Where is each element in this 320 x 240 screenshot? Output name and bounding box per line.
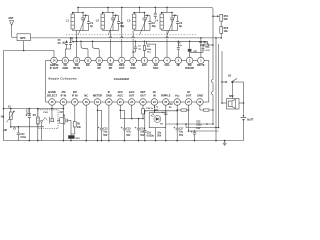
svg-text:BPF: BPF (20, 36, 26, 40)
IC pin 18 NC (bottom) (83, 99, 90, 106)
junction node BPF/left bus (23, 50, 25, 52)
rail y110.8 (145, 110, 178, 112)
IC pin 1 MUTE (top) (198, 57, 205, 64)
svg-text:OUT: OUT (140, 94, 146, 98)
earphone jack PH1 dashed box (38, 110, 58, 129)
wire pin 1 MUTE up (200, 38, 202, 57)
svg-text:C12: C12 (103, 128, 108, 130)
svg-text:10V: 10V (196, 128, 201, 130)
IC pin 20 IF GND (bottom) (106, 99, 113, 106)
svg-text:IF IN: IF IN (61, 94, 67, 98)
svg-text:C18 1u: C18 1u (146, 108, 154, 110)
band pass filter BPF (17, 34, 31, 41)
capacitor C14 10u 50V (138, 119, 140, 129)
svg-text:0.033u: 0.033u (147, 136, 155, 138)
svg-text:NC: NC (86, 63, 90, 67)
IC pin 12 FM RF IN (top) (73, 57, 80, 64)
svg-text:C17: C17 (179, 128, 184, 130)
right bus wire c (221, 51, 223, 103)
wire top rail corner down (211, 7, 213, 9)
IC U1 CXA1691M body (46, 61, 209, 103)
svg-text:220u: 220u (196, 125, 202, 127)
wire pin 19 METER down (97, 105, 99, 141)
IC pin 15 BAND SELECT (bottom) (49, 99, 56, 106)
wire pin 3 NF up (177, 41, 179, 47)
svg-text:RF IN: RF IN (73, 66, 80, 70)
junction arrow line (212, 15, 214, 17)
second rail y41.3 (72, 40, 208, 42)
svg-text:C10: C10 (20, 134, 25, 136)
svg-text:DET: DET (140, 90, 146, 94)
tuned circuit L4/C4 AM OSC tank (160, 14, 163, 29)
svg-text:IN: IN (153, 94, 156, 98)
top supply rail (78, 6, 211, 8)
svg-text:C13: C13 (126, 128, 131, 130)
tuned circuit L1/C1 FM RF tank (71, 14, 74, 29)
svg-text:C11: C11 (26, 111, 31, 113)
wire caps to pin 13 (65, 48, 70, 50)
wiper arrow into RV1 (213, 15, 217, 17)
earphone plug P1 (57, 120, 60, 122)
IC pin 7 FM OSC (top) (130, 57, 137, 64)
svg-text:BAND: BAND (48, 90, 56, 94)
svg-text:AFC: AFC (118, 90, 123, 94)
svg-text:AFC: AFC (142, 63, 147, 67)
svg-text:VOL: VOL (164, 63, 170, 67)
wire pin 22 down (131, 105, 133, 119)
IC pin 23 DET OUT (bottom) (140, 99, 147, 106)
svg-text:ANT: ANT (8, 16, 14, 20)
svg-text:OSC: OSC (130, 66, 136, 70)
svg-text:2p: 2p (90, 25, 93, 28)
ferrite bead DF2 (70, 134, 72, 141)
svg-text:50V: 50V (154, 109, 158, 111)
svg-text:NF: NF (177, 63, 181, 67)
capacitor C13 4.7u 50V (119, 105, 121, 111)
svg-text:34p: 34p (120, 25, 125, 28)
svg-text:AGC: AGC (117, 94, 123, 98)
svg-text:Vcc: Vcc (175, 94, 180, 98)
svg-text:30p: 30p (152, 25, 157, 28)
rail y127.5 (186, 127, 219, 129)
wire speaker right (239, 102, 244, 104)
svg-text:0.01u: 0.01u (20, 137, 26, 139)
wire RV2 to rail (220, 33, 222, 38)
capacitor C17 10u 50V (176, 127, 179, 129)
wire tank3 to pin 7 FM OSC (132, 31, 134, 37)
svg-text:OUT: OUT (186, 94, 192, 98)
rail mid-left lower (11, 126, 44, 128)
rail y118.5 (120, 118, 143, 120)
IC pin 9 FM RF (top) (107, 57, 114, 64)
wire pin 25 RIPPLE down (165, 105, 167, 113)
potentiometer RV1 50k (220, 14, 223, 21)
wire pin15 into jack (51, 105, 53, 119)
IC pin 16 AM IF IN (bottom) (60, 99, 67, 106)
svg-text:RF: RF (109, 66, 113, 70)
rail mid-left upper (4, 108, 64, 110)
LED cathode wire (155, 128, 157, 141)
svg-text:CXA1691M: CXA1691M (114, 77, 130, 81)
capacitor C19 1u (164, 112, 167, 114)
wire to pin 8 REG OUT (121, 7, 123, 36)
svg-text:IF: IF (108, 90, 111, 94)
jack contacts (41, 120, 43, 122)
wire pin 27 AF OUT down (188, 105, 190, 131)
IC pin 14 AM/FM IF OUT (top) (51, 57, 58, 64)
padder capacitor between tank3 and tank4 (154, 7, 156, 13)
svg-text:AM: AM (61, 90, 65, 94)
capacitor C16 0.033u (144, 111, 146, 131)
svg-text:DISCRI: DISCRI (185, 66, 194, 70)
rail y124 (166, 123, 213, 125)
wire pin 28 GND down + resistor R7 (199, 105, 201, 110)
svg-text:OUT: OUT (129, 94, 135, 98)
capacitor C12 10u 50V (98, 109, 102, 111)
svg-text:GND: GND (197, 94, 203, 98)
IC pin 28 GND (bottom) (197, 99, 204, 106)
tuned circuit L2/C2 FM OSC tank (101, 14, 104, 29)
wire pin 5 AM OSC (146, 41, 148, 44)
IC pin 26 Vcc (bottom) (174, 99, 181, 106)
IC pin 21 AFC AGC (bottom) (117, 99, 124, 106)
wire pin 20 IF GND down (108, 105, 110, 141)
IC pin 24 AF IN (bottom) (151, 99, 158, 106)
svg-text:C16: C16 (147, 132, 152, 134)
wire left rail to pin 14 (4, 50, 55, 52)
capacitor C20 220u 10V (194, 131, 196, 132)
svg-text:50V: 50V (157, 136, 162, 138)
svg-text:Форум Сидорова: Форум Сидорова (48, 77, 77, 81)
LED D1 indicator box (149, 113, 166, 128)
svg-text:50V: 50V (126, 135, 131, 137)
wire tank4 to pin 4 VOL (166, 31, 168, 37)
IC pin 10 AM RF (top) (96, 57, 103, 64)
svg-text:AF: AF (153, 90, 157, 94)
svg-text:OSC: OSC (153, 66, 159, 70)
IC pin 22 AGC OUT (bottom) (128, 99, 135, 106)
svg-text:50k: 50k (224, 18, 229, 21)
wire tank1 to pin 12 FM RF IN (76, 31, 78, 58)
svg-text:AGC: AGC (129, 90, 135, 94)
wire to pin 10 AM RF (93, 41, 100, 57)
IC pin 8 REG OUT (top) (119, 57, 126, 64)
wire BPF bottom to node (23, 41, 25, 51)
svg-text:10u: 10u (157, 132, 162, 134)
capacitor C15 0.01 (202, 45, 204, 48)
tuned circuit L3/C3 AM RF tank (133, 14, 136, 29)
wire to pin 11 (81, 41, 88, 57)
capacitor C7 1p (135, 41, 137, 47)
wire S2 to speaker top (231, 82, 233, 99)
wire pin 26 Vcc down (176, 105, 178, 128)
wire RV1 to RV2 (220, 21, 222, 26)
wire pin 17 FM IF IN down + resistor R5 330 (74, 105, 76, 122)
IC pin 2 FM DISCRI (top) (186, 57, 193, 64)
svg-text:RIPPLE: RIPPLE (161, 94, 171, 98)
svg-text:BaTT: BaTT (247, 118, 254, 121)
svg-text:50V: 50V (103, 135, 108, 137)
svg-text:10k: 10k (224, 30, 229, 33)
svg-text:IF IN: IF IN (72, 94, 78, 98)
right bus wire b (218, 44, 220, 128)
IC pin 13 FE GND (top) (62, 57, 69, 64)
svg-text:50V: 50V (140, 135, 145, 137)
resistor R5 (177, 109, 181, 111)
capacitor C10 0.01u (17, 127, 19, 133)
svg-text:IF OUT: IF OUT (50, 66, 59, 70)
IC pin 17 FM IF IN (bottom) (72, 99, 79, 106)
IC pin 25 RIPPLE (bottom) (163, 99, 170, 106)
wire tank2 to pin 9 FM RF (110, 31, 112, 37)
battery BATT (243, 113, 245, 117)
svg-text:SELECT: SELECT (47, 94, 58, 98)
svg-text:50V: 50V (179, 135, 184, 137)
svg-text:FM: FM (73, 90, 77, 94)
wire antenna to BPF (12, 36, 17, 38)
IC pin 19 METER (bottom) (94, 99, 101, 106)
IC pin 3 NF (top) (175, 57, 182, 64)
svg-text:AF: AF (187, 90, 191, 94)
resistor R1 100k to pin 6 AFC (143, 41, 145, 45)
svg-text:4.7u: 4.7u (126, 131, 131, 134)
ground symbol (224, 141, 226, 144)
IC pin 27 AF OUT (bottom) (185, 99, 192, 106)
svg-text:GND: GND (106, 94, 112, 98)
right bus wire a (215, 38, 217, 141)
svg-text:NC: NC (84, 94, 88, 98)
svg-text:SP2: SP2 (229, 95, 234, 98)
rail y131 (189, 130, 219, 132)
IC pin 11 NC (top) (85, 57, 92, 64)
svg-text:MUTE: MUTE (197, 63, 205, 67)
svg-text:AM: AM (3, 129, 7, 132)
IC pin 5 AM OSC (top) (152, 57, 159, 64)
gang tuning mechanical dash line (66, 34, 196, 36)
wire pin 24 AF IN down to LED box (153, 105, 155, 113)
svg-text:OUT: OUT (119, 66, 125, 70)
svg-text:C19: C19 (168, 104, 173, 106)
potentiometer RV2 10k (220, 27, 223, 34)
IC pin 4 VOL (top) (164, 57, 171, 64)
svg-text:METER: METER (93, 94, 102, 98)
wire pin 23 DET OUT down + resistor R6 (142, 105, 144, 109)
wire BPF output rail to RV2 (31, 37, 222, 39)
discriminator DF1 (189, 41, 191, 49)
IC pin 6 AFC (top) (141, 57, 148, 64)
svg-text:GND: GND (62, 66, 68, 70)
left bus wire (3, 51, 5, 141)
svg-text:RF: RF (97, 66, 101, 70)
svg-text:C21: C21 (196, 121, 201, 123)
wire S2 to battery (243, 82, 245, 113)
svg-text:9p: 9p (179, 25, 182, 28)
wire pin 18 down (85, 105, 87, 141)
wire speaker left (222, 102, 227, 104)
wire pin 16 AM IF IN down (62, 105, 64, 141)
svg-text:10u: 10u (103, 132, 108, 134)
svg-text:10u: 10u (179, 132, 184, 134)
ground bus (4, 140, 244, 142)
svg-text:100k: 100k (146, 49, 152, 51)
